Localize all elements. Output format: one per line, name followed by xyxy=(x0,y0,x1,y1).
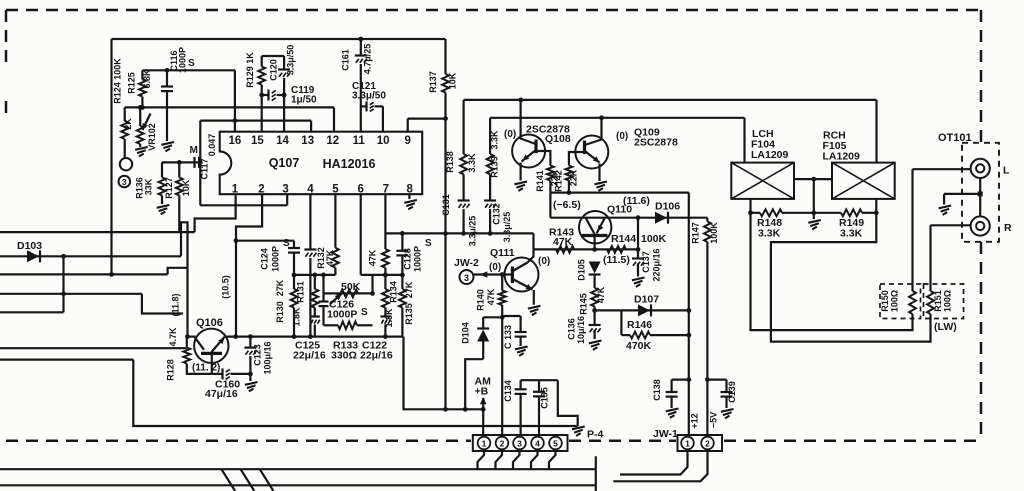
svg-text:3: 3 xyxy=(122,177,127,187)
svg-text:22μ/16: 22μ/16 xyxy=(360,350,393,362)
svg-text:R135: R135 xyxy=(404,303,414,325)
svg-text:(LW): (LW) xyxy=(934,321,957,333)
svg-text:M: M xyxy=(190,145,198,156)
svg-text:47K: 47K xyxy=(486,288,496,305)
wire pin2 to node 10.5 xyxy=(236,194,262,336)
svg-text:LA1209: LA1209 xyxy=(751,149,789,161)
wire D104 to rail xyxy=(465,359,483,409)
wire left entry y274 xyxy=(0,273,168,275)
ground under C116 xyxy=(161,142,174,145)
svg-text:D104: D104 xyxy=(461,322,471,344)
capacitor C125 on pin4 column xyxy=(309,194,311,249)
resistor R133 330ohm loop bottom xyxy=(324,324,339,326)
svg-text:14: 14 xyxy=(276,135,289,147)
wire Q111 collector xyxy=(528,249,534,262)
resistor R142 22K xyxy=(566,166,573,181)
svg-text:9: 9 xyxy=(404,135,410,147)
resistor R127 10K xyxy=(178,162,180,177)
potentiometer 50K loop xyxy=(324,292,373,294)
wire D106 column xyxy=(637,218,639,258)
svg-text:1000P: 1000P xyxy=(413,246,423,272)
svg-text:L: L xyxy=(1003,165,1010,177)
wire pin9 to R137 xyxy=(444,93,446,410)
ground Q108 emitter xyxy=(514,182,527,185)
connector P-4 xyxy=(473,435,568,451)
dashed enclosure border top xyxy=(6,9,981,12)
jack R xyxy=(931,224,971,226)
svg-text:5: 5 xyxy=(332,183,339,195)
ground Q111 emitter xyxy=(533,290,535,305)
svg-text:1μ/50: 1μ/50 xyxy=(291,95,317,106)
svg-text:5: 5 xyxy=(553,439,558,449)
wire left entry y232 xyxy=(0,231,195,233)
wire bottom vertical xyxy=(595,456,597,491)
svg-text:4: 4 xyxy=(307,183,314,195)
svg-text:16: 16 xyxy=(229,135,242,147)
wire supply row B y118 xyxy=(490,117,744,119)
wire pin15 leg xyxy=(261,95,263,132)
svg-text:S: S xyxy=(361,307,368,318)
ground under R136 xyxy=(161,195,163,204)
svg-text:Q107: Q107 xyxy=(269,156,300,170)
svg-text:3.3K: 3.3K xyxy=(840,228,863,240)
svg-text:3.3K: 3.3K xyxy=(467,153,477,173)
capacitor C116 1000P xyxy=(165,68,170,73)
transistor Q106 xyxy=(194,329,228,363)
node Q106 base xyxy=(185,334,190,339)
svg-text:R131: R131 xyxy=(296,281,306,303)
svg-text:R151: R151 xyxy=(933,290,943,312)
svg-text:(0): (0) xyxy=(489,262,501,273)
wire jack link and ground xyxy=(979,178,981,216)
svg-text:4.7μ/25: 4.7μ/25 xyxy=(363,44,373,75)
capacitor C123 100u/16 xyxy=(248,334,253,339)
wire pin16 bus y120 xyxy=(200,119,311,121)
resistor R140 47K xyxy=(500,272,505,277)
capacitor C134 xyxy=(521,379,558,381)
wire Q108 base to R141 xyxy=(537,151,550,166)
resistor R137 10K xyxy=(444,39,446,74)
svg-text:1: 1 xyxy=(685,439,690,449)
svg-text:LA1209: LA1209 xyxy=(823,151,861,163)
svg-text:C123: C123 xyxy=(253,344,263,366)
resistor R149 3.3K xyxy=(841,209,862,216)
svg-text:8: 8 xyxy=(406,183,413,195)
svg-text:−5V: −5V xyxy=(709,412,719,428)
resistor R134 1.8K xyxy=(382,289,389,308)
svg-text:(0): (0) xyxy=(616,131,628,142)
dashed enclosure border right upper xyxy=(980,10,983,143)
jumper tag 3 left xyxy=(119,176,131,188)
capacitor C124 1000P xyxy=(293,241,295,248)
diode D103 xyxy=(0,255,181,257)
svg-text:JW-1: JW-1 xyxy=(653,428,678,440)
svg-text:10K: 10K xyxy=(181,179,191,196)
svg-text:D107: D107 xyxy=(634,294,659,306)
svg-text:D106: D106 xyxy=(655,201,680,213)
svg-text:R129 1K: R129 1K xyxy=(245,52,255,88)
svg-text:3: 3 xyxy=(464,273,469,283)
capacitor C119 1u/50 xyxy=(262,94,269,96)
wire F104-F105 center link xyxy=(794,178,832,180)
wire pin2-C124 link xyxy=(236,240,294,242)
ground center link xyxy=(808,220,821,223)
IC U Q107 HA12016 body xyxy=(220,132,423,195)
svg-text:3.3μ/25: 3.3μ/25 xyxy=(502,212,512,243)
capacitor C120 3.3u/50 xyxy=(283,56,285,69)
wire R channel loop xyxy=(771,213,931,342)
svg-text:22μ/16: 22μ/16 xyxy=(293,350,326,362)
svg-text:S: S xyxy=(283,238,290,249)
wire pin8 ground xyxy=(408,194,410,199)
svg-text:1000P: 1000P xyxy=(271,246,281,272)
capacitor C117 0.047 xyxy=(193,157,195,168)
wire D107 row y310 xyxy=(595,309,689,311)
dashed enclosure border left xyxy=(5,10,8,62)
svg-text:0.047: 0.047 xyxy=(207,134,217,157)
dashed box R150 xyxy=(880,284,921,319)
svg-text:R145: R145 xyxy=(579,293,589,315)
svg-text:C 133: C 133 xyxy=(503,325,513,349)
svg-text:100K: 100K xyxy=(641,233,667,245)
svg-text:R127: R127 xyxy=(164,177,174,199)
wire node row y107 xyxy=(125,106,334,108)
svg-text:R140: R140 xyxy=(476,289,486,311)
capacitor C138 xyxy=(672,379,689,381)
wire pin1 supply drop xyxy=(482,409,484,434)
svg-text:50K: 50K xyxy=(341,281,361,293)
svg-text:4: 4 xyxy=(535,439,540,449)
svg-text:3: 3 xyxy=(517,439,522,449)
transistor Q110 xyxy=(579,211,611,243)
svg-text:12: 12 xyxy=(326,135,339,147)
svg-text:JW-2: JW-2 xyxy=(454,257,479,269)
svg-text:R142: R142 xyxy=(554,170,564,192)
wire branch down from D103 xyxy=(62,256,64,312)
svg-text:7: 7 xyxy=(383,183,389,195)
svg-text:11: 11 xyxy=(353,135,366,147)
svg-text:3.3μ/50: 3.3μ/50 xyxy=(352,91,386,102)
wire row A left xyxy=(294,274,335,276)
capacitor C126 1000P xyxy=(322,293,324,301)
diode D104 xyxy=(483,316,502,318)
capacitor C137 220u/16 xyxy=(632,257,644,259)
svg-text:R134: R134 xyxy=(389,281,399,303)
capacitor C133 xyxy=(502,315,520,317)
resistor 47K on pin7 column xyxy=(384,194,386,249)
svg-text:27K: 27K xyxy=(404,281,414,298)
svg-text:3.3K: 3.3K xyxy=(758,228,781,240)
svg-text:Q111: Q111 xyxy=(490,247,515,259)
ground P-4 xyxy=(572,427,585,430)
wire left entry y348 xyxy=(0,347,187,349)
svg-text:1: 1 xyxy=(482,439,487,449)
svg-text:C161: C161 xyxy=(341,49,351,71)
resistor R148 3.3K xyxy=(749,199,751,213)
resistor R124 xyxy=(124,107,126,121)
svg-text:2SC2878: 2SC2878 xyxy=(634,137,678,149)
svg-text:330Ω: 330Ω xyxy=(331,350,357,362)
wire R124 row to pin12 xyxy=(333,107,335,131)
resistor R136 33K xyxy=(161,162,163,177)
svg-text:1000P: 1000P xyxy=(178,47,188,73)
svg-text:C136: C136 xyxy=(567,318,577,340)
svg-text:(11.8): (11.8) xyxy=(171,293,181,316)
wire R127 bottom to left bus xyxy=(178,195,180,232)
ground Q109 emitter xyxy=(594,182,607,185)
svg-text:1: 1 xyxy=(232,183,239,195)
wire +12 column xyxy=(688,193,690,434)
dashed enclosure border bottom xyxy=(6,440,471,443)
svg-text:R141: R141 xyxy=(535,170,545,192)
wire JW-2 arrow to Q111 base xyxy=(474,273,512,275)
svg-text:33K: 33K xyxy=(144,178,154,195)
svg-text:2: 2 xyxy=(500,439,505,449)
wire D103 jog up xyxy=(181,222,188,267)
svg-text:1.8K: 1.8K xyxy=(384,308,394,328)
svg-text:R144: R144 xyxy=(611,233,636,245)
svg-text:3: 3 xyxy=(282,183,288,195)
wire node row y162 xyxy=(162,161,200,163)
wire pin6 column xyxy=(360,194,362,275)
capacitor C136 10u/16 xyxy=(593,310,595,324)
wire row A right xyxy=(361,274,403,276)
resistor R145 47K xyxy=(593,276,595,289)
capacitor C132 3.3u/25 xyxy=(489,174,491,200)
svg-text:Q108: Q108 xyxy=(545,133,571,145)
svg-text:+12: +12 xyxy=(690,413,700,428)
wire base column xyxy=(186,268,188,337)
resistor R151 100ohm xyxy=(927,291,934,314)
capacitor C131 3.3u/25 xyxy=(463,174,465,200)
svg-text:3.3μ/25: 3.3μ/25 xyxy=(468,216,478,247)
svg-text:13: 13 xyxy=(301,135,314,147)
svg-text:1.8K: 1.8K xyxy=(292,307,302,327)
svg-text:470K: 470K xyxy=(626,340,652,352)
svg-text:R125: R125 xyxy=(127,72,137,94)
svg-text:47K: 47K xyxy=(325,249,335,266)
capacitor C139 xyxy=(707,379,726,381)
wire Q109 base to R142 xyxy=(569,152,584,166)
capacitor C135 xyxy=(538,380,540,391)
svg-text:47K: 47K xyxy=(596,286,606,303)
svg-text:100Ω: 100Ω xyxy=(943,290,953,312)
ground under VR102 xyxy=(139,144,141,147)
svg-text:47μ/16: 47μ/16 xyxy=(205,388,238,400)
svg-text:6: 6 xyxy=(357,183,363,195)
svg-text:(0): (0) xyxy=(538,256,550,267)
svg-text:47K: 47K xyxy=(368,249,378,266)
svg-text:6.8K: 6.8K xyxy=(142,69,152,89)
svg-text:P-4: P-4 xyxy=(587,429,604,441)
svg-text:R128: R128 xyxy=(166,359,176,381)
svg-text:R146: R146 xyxy=(627,319,652,331)
svg-text:3.3K: 3.3K xyxy=(490,130,500,150)
svg-text:2: 2 xyxy=(705,439,710,449)
diode D106 xyxy=(636,215,641,220)
wire row B y336 xyxy=(225,336,404,338)
svg-text:220μ/16: 220μ/16 xyxy=(652,248,662,281)
wire base row y249 xyxy=(534,248,639,250)
svg-text:2: 2 xyxy=(258,183,264,195)
svg-text:C138: C138 xyxy=(652,379,662,401)
svg-text:D103: D103 xyxy=(17,240,42,252)
wire bus drop hooks xyxy=(221,469,235,491)
terminal circle under R124 xyxy=(120,158,132,170)
svg-text:S: S xyxy=(425,238,432,249)
wire rail B to F104 xyxy=(743,118,745,163)
wire pin3 connection xyxy=(200,204,287,206)
dashed enclosure border right lower xyxy=(980,242,983,440)
diode D107 xyxy=(638,304,650,316)
svg-text:1000P: 1000P xyxy=(327,309,357,321)
filter F104 LA1209 LCH xyxy=(731,163,794,199)
resistor R147 100K xyxy=(706,218,708,222)
svg-text:100μ/16: 100μ/16 xyxy=(263,341,273,374)
resistor R130 27K xyxy=(291,289,298,308)
svg-text:R147: R147 xyxy=(691,222,701,244)
svg-text:VR102: VR102 xyxy=(147,123,157,151)
resistor R128 4.7K xyxy=(183,348,190,364)
svg-text:C135: C135 xyxy=(540,387,550,409)
wire pin7 row y233 xyxy=(385,232,533,234)
svg-text:22K: 22K xyxy=(569,169,579,186)
wire filter to ground xyxy=(558,380,578,426)
svg-text:47K: 47K xyxy=(553,236,573,248)
resistor R146 470K xyxy=(620,310,622,335)
svg-text:+B: +B xyxy=(475,386,489,398)
wire supply row A y100 xyxy=(464,99,877,101)
capacitor C128 1000P xyxy=(401,233,403,250)
resistor R141 22K xyxy=(547,166,554,181)
svg-text:R137: R137 xyxy=(428,71,438,93)
svg-text:(0): (0) xyxy=(504,129,516,140)
wire left entry y294 xyxy=(0,293,142,295)
svg-text:Q106: Q106 xyxy=(196,317,223,329)
transistor Q108 2SC2878 xyxy=(512,135,545,168)
wire row B to AM rail xyxy=(404,337,484,410)
wire bottom bus 2 xyxy=(0,484,596,486)
capacitor C161 4.7u/25 xyxy=(358,37,363,42)
wire pin11 leg xyxy=(360,106,362,131)
svg-text:10: 10 xyxy=(377,135,390,147)
wire P-4 pin drops xyxy=(478,449,485,469)
svg-text:27K: 27K xyxy=(275,279,285,296)
svg-text:R150: R150 xyxy=(880,290,890,312)
wire main block top edge xyxy=(112,38,446,40)
svg-text:R130: R130 xyxy=(275,301,285,323)
wire JW-1 pin drops xyxy=(620,449,688,474)
svg-text:C132: C132 xyxy=(492,203,502,225)
variable resistor VR102 2K xyxy=(138,105,143,110)
wire Q110 rail y217 xyxy=(550,217,707,219)
svg-text:C139: C139 xyxy=(727,381,737,403)
svg-text:10μ/16: 10μ/16 xyxy=(576,316,586,344)
svg-text:R138: R138 xyxy=(445,151,455,173)
svg-text:R: R xyxy=(1004,222,1012,234)
svg-text:10K: 10K xyxy=(448,72,458,89)
resistor R139 3.3K xyxy=(489,118,491,154)
svg-text:15: 15 xyxy=(251,135,264,147)
wire bottom rail above dashed xyxy=(133,360,577,426)
svg-text:(10.5): (10.5) xyxy=(221,275,231,299)
filter F105 LA1209 RCH xyxy=(832,163,895,199)
svg-text:R124 100K: R124 100K xyxy=(113,58,123,104)
svg-text:C128: C128 xyxy=(403,248,413,270)
resistor R144 100K xyxy=(592,247,597,252)
svg-text:C120: C120 xyxy=(269,59,279,81)
transistor Q111 xyxy=(505,258,539,292)
wire pin1 down-left xyxy=(195,194,236,232)
svg-text:(−6.5): (−6.5) xyxy=(553,199,581,211)
capacitor C121 3.3u/50 xyxy=(361,105,367,107)
svg-text:4.7K: 4.7K xyxy=(168,327,178,347)
resistor R143 47K xyxy=(556,246,574,253)
svg-text:C131: C131 xyxy=(441,194,451,216)
capacitor C160 47u/16 xyxy=(212,373,223,375)
wire main block left edge xyxy=(110,39,112,274)
svg-text:C124: C124 xyxy=(260,248,270,270)
resistor R138 3.3K xyxy=(463,100,465,154)
diode D105 xyxy=(589,262,601,274)
svg-text:C134: C134 xyxy=(503,380,513,402)
svg-text:S: S xyxy=(188,58,195,69)
wire left entry y312 xyxy=(0,311,64,313)
resistor R150 100ohm xyxy=(909,291,916,314)
svg-text:HA12016: HA12016 xyxy=(323,157,376,171)
wire step to Q106 base xyxy=(142,294,183,314)
dashed box R151 xyxy=(924,284,964,319)
wire R125 top to pin16 xyxy=(142,69,235,71)
svg-text:3.3μ/50: 3.3μ/50 xyxy=(286,45,296,76)
resistor R125 6.8K xyxy=(140,105,145,110)
resistor R129 1K xyxy=(262,55,284,57)
svg-text:Q110: Q110 xyxy=(607,204,632,216)
jack L xyxy=(913,168,971,170)
wire rail A to F105 xyxy=(875,100,877,163)
wire L channel loop xyxy=(751,213,913,330)
resistor R132 47K on pin5 column xyxy=(334,194,336,248)
resistor R135 27K xyxy=(399,289,406,308)
svg-text:100Ω: 100Ω xyxy=(890,290,900,312)
svg-text:C137: C137 xyxy=(641,251,651,273)
svg-text:100K: 100K xyxy=(709,222,719,244)
wire bottom bus 1 xyxy=(0,468,596,470)
svg-text:2K: 2K xyxy=(123,118,133,130)
resistor R131 1.8K xyxy=(314,275,316,289)
wire pin14 leg xyxy=(283,95,285,132)
svg-text:(11.5): (11.5) xyxy=(603,254,630,266)
svg-text:(11. 2): (11. 2) xyxy=(192,363,220,374)
wire collector rail y192 xyxy=(550,192,688,194)
svg-text:D105: D105 xyxy=(577,259,587,281)
transistor Q109 2SC2878 xyxy=(575,136,608,169)
wire pin10 leg xyxy=(382,106,384,131)
wire step up to base column xyxy=(168,268,188,275)
